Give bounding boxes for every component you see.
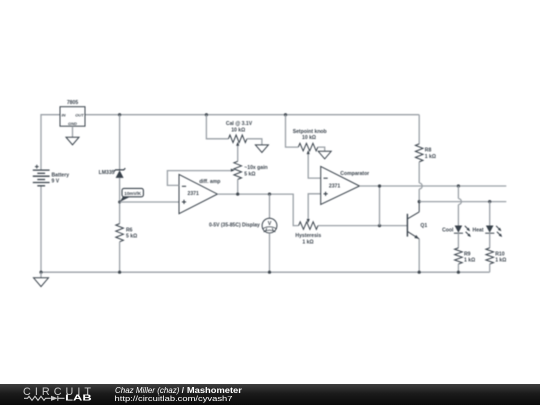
wire top rail +5V [85,114,419,116]
battery V1 plus sign [35,165,39,169]
op-amp U3 comparator triangle [321,166,360,204]
voltmeter circle [262,218,277,233]
wire cal pot to ground [247,139,262,145]
junction R6 ground rail [118,271,121,274]
junction Q1 emitter rail [418,271,421,274]
LED D2 Heat emission arrows [496,226,502,237]
wire U1 feedback to gain pot wiper [167,171,230,186]
wire battery to 7805 IN [41,115,60,170]
wire rail to R8 [418,115,420,144]
wire gain pot to output node [237,179,239,194]
LED D2 Heat triangle [486,226,494,233]
wire 7805 GND stub [72,126,74,137]
junction collector heat LED [488,200,491,203]
wire collector line 2 [419,201,506,203]
junction output cool LED [457,184,460,187]
LED D1 Cool emission arrows [465,226,471,237]
LED D1 Cool triangle [455,226,463,233]
voltmeter gauge face [262,227,276,232]
CircuitLab logo resistor-diode glyph [24,396,65,401]
battery long plate 1 [33,169,50,171]
LED D1 Cool cathode bar [454,232,463,234]
voltage regulator 7805 [60,107,85,127]
Q1 collector wire [418,202,420,212]
wire heat LED to R10 [489,233,491,248]
wire hysteresis wiper to comparator plus [308,194,321,221]
ground below 7805 [66,137,79,145]
junction battery-ground rail [39,271,42,274]
junction R9 rail [457,271,460,274]
wire LM335 to R6 [119,178,121,224]
op-amp U3 minus sign [324,177,328,179]
resistor R6 [116,224,124,242]
ground cal pot [255,145,268,153]
wire R8 to collector hop lower [418,189,420,202]
wire setpoint pot to ground [318,147,325,151]
op-amp U1 minus sign [182,185,186,187]
Q1 base bar [406,214,408,237]
resistor R9 [455,248,463,264]
wire rail to cal pot [206,115,228,139]
svg-text:LAB: LAB [65,393,92,402]
svg-text:http://circuitlab.com/cyvash7: http://circuitlab.com/cyvash7 [115,394,233,403]
cal pot wiper arrowhead [236,142,239,146]
Q1 emitter wire to rail [418,239,420,272]
Q1 collector diagonal [408,212,419,219]
Q1 emitter diagonal [408,232,419,239]
wire feedback vertical [379,186,381,226]
wire cool LED lower [457,205,459,226]
junction top rail cal pot [205,113,208,116]
wire voltmeter to ground rail [269,233,271,272]
wire hop R8 over output line [419,183,422,189]
wire hysteresis to Q1 base line [318,225,407,227]
junction R8 collector [418,200,421,203]
callout box 10mV/K [120,197,130,202]
junction top rail LM335 [118,113,121,116]
wire U1 output [217,194,298,226]
potentiometer Cal body [228,135,247,143]
hysteresis wiper arrowhead [307,219,310,223]
wire R6 to ground rail [119,242,121,272]
wire output to voltmeter [269,194,271,218]
wire comparator output line [360,185,507,187]
wire bottom ground rail [41,271,490,273]
junction hysteresis feedback [378,224,381,227]
wire rail to LM335 [119,115,121,170]
wire rail to setpoint pot [286,115,299,147]
op-amp U1 plus sign [182,200,186,204]
junction comparator output feedback [378,184,381,187]
junction output voltmeter [268,193,271,196]
wire heat LED upper [489,202,491,226]
wire cal wiper to gain pot [237,145,239,162]
resistor R8 [415,144,423,162]
wire battery minus to ground rail [40,186,42,272]
battery long plate 3 [33,182,50,184]
wire cool LED upper [457,186,459,199]
junction sense node [118,201,121,204]
wire sense node to op-amp + input [120,201,179,203]
potentiometer Hysteresis body [299,222,318,230]
op-amp U3 plus sign [324,192,328,196]
wire R10 to rail [489,264,491,272]
LM335 zener cathode bar [114,168,125,171]
op-amp U1 diff amp triangle [179,174,217,213]
wire R9 to rail [457,264,459,272]
wire ground stub battery [40,272,42,278]
battery short plate 2 [37,179,45,181]
setpoint wiper arrowhead [307,150,310,154]
LED D2 Heat cathode bar [485,232,494,234]
LM335 zener triangle [116,170,124,178]
ground bottom left [34,278,49,287]
resistor R10 [486,248,494,264]
wire R8 to collector hop upper [418,162,420,183]
battery long plate 2 [33,175,50,177]
wire setpoint wiper to comparator minus [308,153,321,178]
gain pot wiper arrowhead [231,169,235,172]
potentiometer ~10x gain body [234,161,242,179]
battery short plate 3 [37,185,45,187]
junction top rail setpoint [284,113,287,116]
ground setpoint pot [318,151,331,159]
battery short plate 1 [37,172,45,174]
potentiometer Setpoint body [298,143,318,151]
junction voltmeter ground rail [268,271,271,274]
Q1 emitter arrowhead [414,235,419,239]
junction gain pot output [236,193,239,196]
wire hop cool over collector line [458,199,461,205]
footer bar [0,384,540,405]
wire cool LED to R9 [457,233,459,248]
